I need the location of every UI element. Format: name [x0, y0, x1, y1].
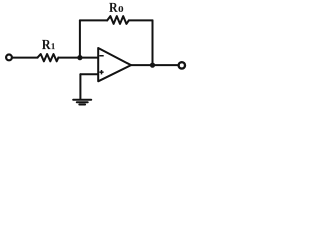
label R0	[109, 3, 123, 12]
output terminal	[179, 62, 185, 68]
label R1	[42, 40, 55, 49]
resistor R0	[107, 16, 129, 24]
wire feedback vertical right	[152, 20, 154, 65]
output node dot	[150, 63, 155, 68]
wire plus input to ground vertical	[79, 74, 81, 99]
resistor R1	[38, 54, 59, 61]
wire input to R1	[13, 57, 38, 59]
ground	[73, 100, 91, 105]
op-amp U1 triangle	[98, 48, 131, 81]
wire feedback vertical left	[79, 20, 81, 57]
input terminal	[6, 55, 12, 61]
node junction dot	[77, 55, 82, 60]
wire top rail right	[129, 19, 153, 21]
op-amp plus sign	[99, 70, 103, 74]
wire op-amp output	[131, 64, 178, 66]
wire R1 to op-amp minus input	[58, 57, 97, 59]
wire plus input horizontal	[80, 73, 97, 75]
op-amp minus sign	[99, 55, 103, 57]
wire top rail left	[80, 19, 107, 21]
